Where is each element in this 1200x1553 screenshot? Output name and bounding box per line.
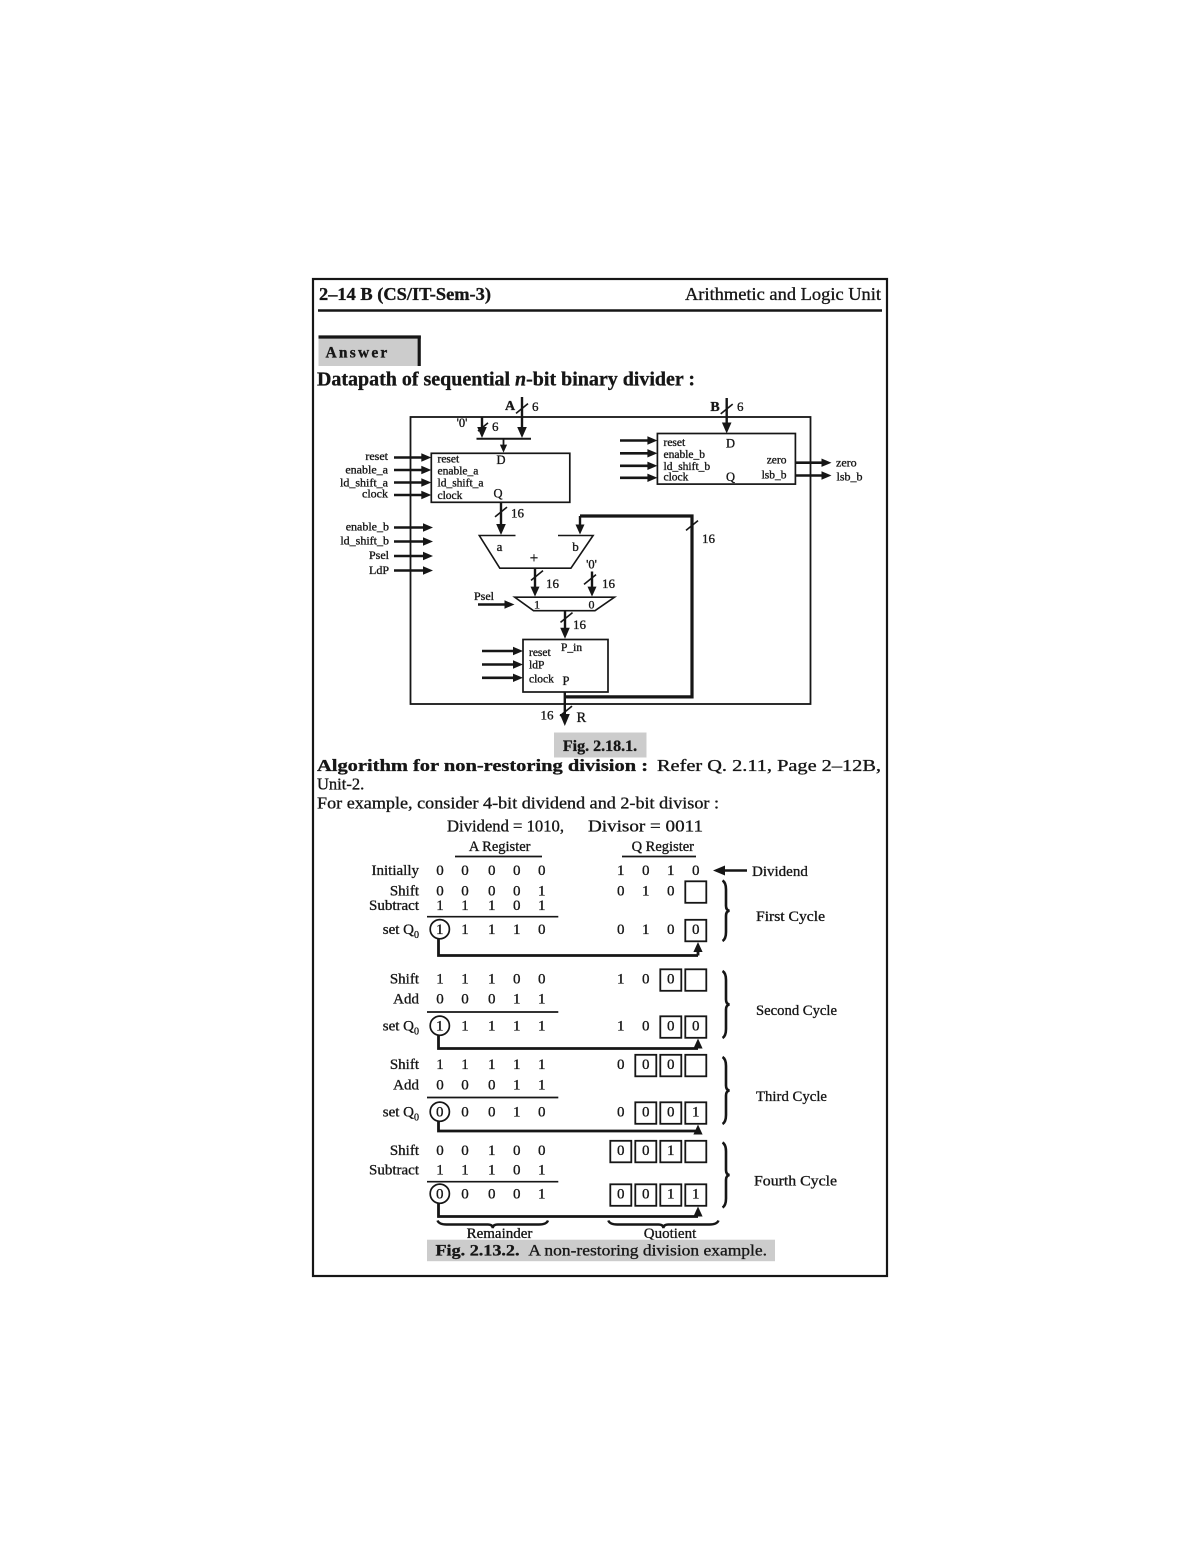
svg-text:0: 0 [692, 922, 700, 938]
svg-text:Shift: Shift [390, 1057, 420, 1073]
svg-text:1: 1 [488, 898, 496, 914]
bits Shift c4 [436, 1143, 545, 1159]
circled carry c3 [430, 1102, 449, 1121]
cycle brace 2 [723, 971, 730, 1038]
svg-text:0: 0 [436, 992, 444, 1008]
svg-text:1: 1 [461, 898, 469, 914]
svg-text:Quotient: Quotient [644, 1226, 697, 1242]
svg-text:Q Register: Q Register [632, 839, 695, 855]
svg-text:Algorithm for non-restoring di: Algorithm for non-restoring division : [317, 756, 648, 775]
svg-text:0: 0 [692, 863, 700, 879]
register B pin Q [726, 470, 735, 484]
wire Psel to mux [478, 600, 515, 608]
dividend arrow [713, 866, 747, 876]
svg-text:Unit-2.: Unit-2. [317, 775, 364, 794]
svg-text:Add: Add [393, 1078, 419, 1094]
paragraph line 3 [317, 794, 719, 813]
svg-text:reset: reset [529, 647, 552, 659]
svg-text:reset: reset [438, 454, 461, 466]
circled carry c2 [430, 1016, 449, 1035]
node ld_shift_a [340, 476, 389, 490]
svg-text:0: 0 [488, 1187, 496, 1203]
header right title [685, 284, 881, 304]
Q box setQ0 c1 [685, 920, 706, 942]
svg-text:set Q0: set Q0 [383, 922, 419, 941]
svg-text:Refer Q. 2.11, Page 2–12B,: Refer Q. 2.11, Page 2–12B, [657, 756, 881, 775]
svg-text:Subtract: Subtract [369, 1163, 420, 1179]
bus slash mux0 [584, 575, 596, 585]
svg-text:1: 1 [692, 1105, 700, 1121]
svg-text:clock: clock [529, 674, 554, 686]
svg-text:0: 0 [667, 884, 675, 900]
svg-text:16: 16 [511, 506, 525, 521]
svg-text:LdP: LdP [369, 563, 389, 577]
svg-text:1: 1 [538, 1019, 546, 1035]
bus width 6 (A) [532, 399, 539, 414]
bits Subtract c1 [436, 898, 545, 914]
row label Subtract c4 [369, 1163, 420, 1179]
svg-text:D: D [726, 437, 735, 451]
svg-text:'0': '0' [457, 416, 468, 430]
adder U1 body [479, 536, 593, 569]
answer box top border [319, 335, 421, 338]
svg-text:1: 1 [513, 1078, 521, 1094]
node Psel (mux select) [474, 589, 495, 603]
figure 2.13.2 caption [436, 1243, 768, 1260]
Q box shift c2 [660, 969, 681, 991]
svg-text:0: 0 [617, 922, 625, 938]
svg-text:+: + [530, 551, 538, 567]
wire P to R [560, 692, 570, 726]
answer box right border [418, 336, 421, 367]
svg-text:1: 1 [488, 1019, 496, 1035]
register A pin D [497, 453, 506, 467]
node '0' high bits [457, 416, 468, 430]
node enable_b [346, 520, 389, 534]
label First Cycle [756, 909, 825, 925]
svg-text:Datapath of sequential n-bit b: Datapath of sequential n-bit binary divi… [317, 369, 695, 391]
svg-text:A Register: A Register [469, 839, 531, 855]
svg-text:1: 1 [488, 972, 496, 988]
svg-text:P: P [563, 674, 570, 688]
svg-text:clock: clock [664, 472, 689, 484]
paragraph line 1 regular [657, 756, 881, 775]
svg-text:1: 1 [513, 922, 521, 938]
svg-text:0: 0 [642, 1105, 650, 1121]
svg-text:0: 0 [642, 1143, 650, 1159]
svg-text:b: b [572, 539, 579, 554]
svg-text:Answer: Answer [326, 345, 390, 362]
Q Register underline [622, 856, 696, 858]
bus width 6 (B) [737, 399, 744, 414]
bus width 16 (feedback) [702, 531, 716, 546]
bits Shift c1 [436, 884, 674, 900]
svg-text:For example, consider 4-bit di: For example, consider 4-bit dividend and… [317, 794, 719, 813]
adder plus label [530, 551, 538, 567]
wire ld_shift_a to reg A [394, 478, 431, 486]
sum line c4 [427, 1181, 558, 1183]
bus width 16 (adder out) [546, 576, 560, 591]
svg-text:Divisor = 0011: Divisor = 0011 [588, 817, 703, 836]
svg-text:clock: clock [362, 487, 388, 501]
bus width 16 (mux out) [573, 617, 587, 632]
svg-text:enable_a: enable_a [345, 463, 388, 477]
dividend value [447, 817, 564, 836]
circled carry c4 [430, 1184, 449, 1203]
svg-text:Arithmetic and Logic Unit: Arithmetic and Logic Unit [685, 284, 881, 304]
bits Shift c2 [436, 972, 649, 988]
Q box setQ0 c2 a [660, 1016, 681, 1038]
svg-text:1: 1 [461, 972, 469, 988]
svg-text:1: 1 [538, 1078, 546, 1094]
bus slash feedback [686, 521, 698, 531]
svg-text:0: 0 [538, 972, 546, 988]
wire clock to reg A [394, 491, 431, 499]
answer label [326, 345, 390, 362]
register B pin enable_b [664, 449, 706, 461]
svg-text:Fig. 2.18.1.: Fig. 2.18.1. [563, 738, 637, 755]
bus width 16 (R) [541, 708, 555, 723]
register B pin reset [664, 437, 687, 449]
svg-text:16: 16 [541, 708, 555, 723]
svg-text:0: 0 [461, 992, 469, 1008]
svg-text:6: 6 [492, 419, 499, 434]
svg-text:set Q0: set Q0 [383, 1019, 419, 1038]
svg-text:16: 16 [702, 531, 716, 546]
svg-text:First Cycle: First Cycle [756, 909, 825, 925]
svg-text:Shift: Shift [390, 972, 420, 988]
row label Add c3 [393, 1078, 419, 1094]
register P pin reset [529, 647, 552, 659]
wire Pctrl ldP [482, 660, 523, 668]
svg-text:0: 0 [692, 1019, 700, 1035]
svg-text:zero: zero [767, 455, 787, 467]
Q empty box c3 [685, 1055, 706, 1077]
svg-text:lsb_b: lsb_b [837, 470, 863, 484]
svg-text:1: 1 [642, 922, 650, 938]
Q empty box c4 [685, 1141, 706, 1163]
wire '0' to join bar [477, 417, 487, 438]
svg-text:'0': '0' [586, 558, 597, 572]
svg-text:0: 0 [436, 1143, 444, 1159]
svg-text:ldP: ldP [529, 660, 544, 672]
wire ctrl3 to reg B [620, 462, 657, 470]
svg-text:0: 0 [488, 1078, 496, 1094]
register P pin clock [529, 674, 554, 686]
svg-text:0: 0 [642, 972, 650, 988]
svg-text:0: 0 [589, 598, 595, 612]
divisor value [588, 817, 703, 836]
wire ctrl2 to reg B [620, 449, 657, 457]
bus slash mux out [561, 613, 573, 623]
remainder brace [438, 1221, 549, 1229]
Q empty box c1 [685, 881, 706, 903]
svg-text:1: 1 [461, 922, 469, 938]
svg-text:1: 1 [642, 884, 650, 900]
wrap wire c3 [439, 1121, 703, 1135]
svg-text:Second Cycle: Second Cycle [756, 1003, 837, 1019]
svg-text:1: 1 [538, 1187, 546, 1203]
svg-text:0: 0 [461, 863, 469, 879]
svg-text:0: 0 [513, 972, 521, 988]
svg-text:1: 1 [461, 1057, 469, 1073]
svg-text:0: 0 [436, 1105, 444, 1121]
node ld_shift_b [340, 534, 389, 548]
svg-text:Add: Add [393, 992, 419, 1008]
svg-text:1: 1 [513, 1019, 521, 1035]
bus slash B [721, 404, 733, 414]
register B box [657, 434, 795, 485]
svg-text:0: 0 [642, 1019, 650, 1035]
svg-text:1: 1 [513, 992, 521, 1008]
svg-text:0: 0 [538, 922, 546, 938]
svg-text:1: 1 [461, 1163, 469, 1179]
svg-text:0: 0 [461, 1187, 469, 1203]
datapath enclosure [411, 417, 811, 704]
svg-text:6: 6 [737, 399, 744, 414]
svg-text:1: 1 [488, 922, 496, 938]
svg-text:0: 0 [642, 1187, 650, 1203]
svg-text:1: 1 [436, 922, 444, 938]
row label Shift c1 [390, 884, 420, 900]
header rule [318, 309, 882, 312]
svg-text:1: 1 [488, 1057, 496, 1073]
svg-text:Fourth Cycle: Fourth Cycle [754, 1174, 837, 1190]
section heading [317, 369, 695, 391]
svg-text:zero: zero [836, 456, 857, 470]
bus slash adder out [531, 571, 543, 581]
Q box shift c3 a [635, 1055, 656, 1077]
node enable_a [345, 463, 388, 477]
node lsb_b [837, 470, 863, 484]
svg-text:B: B [710, 400, 719, 415]
bits final c4 [461, 1187, 545, 1203]
sum line c1 [427, 916, 558, 918]
bus slash Qa [495, 507, 507, 517]
sum line c2 [427, 1011, 558, 1013]
register A pin ld_shift_a [438, 478, 484, 490]
svg-text:0: 0 [488, 1105, 496, 1121]
quotient brace [608, 1221, 718, 1229]
node LdP [369, 563, 389, 577]
Q Register header [632, 839, 695, 855]
svg-text:Dividend = 1010,: Dividend = 1010, [447, 817, 564, 836]
register B pin lsb_b [762, 470, 787, 482]
label Second Cycle [756, 1003, 837, 1019]
svg-text:lsb_b: lsb_b [762, 470, 787, 482]
svg-text:1: 1 [667, 1187, 675, 1203]
register P pin P [563, 674, 570, 688]
wrap wire c1 [439, 939, 703, 956]
Q box setQ0 c3 c [685, 1102, 706, 1124]
Q box shift c4 b [635, 1141, 656, 1163]
adder input a label [497, 539, 503, 554]
svg-text:R: R [577, 710, 587, 726]
wire Pctrl clock [482, 674, 523, 682]
svg-text:1: 1 [513, 1057, 521, 1073]
svg-text:1: 1 [436, 898, 444, 914]
bits setQ0 c3 [461, 1105, 624, 1121]
wire '0' to mux [588, 572, 597, 597]
Q empty box c2 [685, 969, 706, 991]
Q box shift c3 b [660, 1055, 681, 1077]
bus slash A [516, 404, 528, 414]
label Fourth Cycle [754, 1174, 837, 1190]
figure 2.18.1 caption background [554, 733, 647, 758]
bus width 6 ('0') [492, 419, 499, 434]
wire ctrl4 to reg B [620, 474, 657, 482]
svg-text:0: 0 [461, 1105, 469, 1121]
bits setQ0 c1 [461, 922, 674, 938]
svg-text:0: 0 [513, 1187, 521, 1203]
bits Initially [436, 863, 699, 879]
svg-text:P_in: P_in [561, 642, 582, 654]
wire join to D [500, 439, 507, 453]
svg-text:1: 1 [692, 1187, 700, 1203]
svg-text:0: 0 [642, 863, 650, 879]
svg-text:0: 0 [617, 1057, 625, 1073]
wire B to reg B [722, 398, 732, 434]
register B pin clock [664, 472, 689, 484]
page outer border [313, 279, 887, 1276]
svg-text:1: 1 [617, 863, 625, 879]
svg-text:Third Cycle: Third Cycle [756, 1089, 827, 1105]
svg-text:enable_b: enable_b [664, 449, 706, 461]
wire lsb_b output [796, 471, 832, 479]
svg-text:6: 6 [532, 399, 539, 414]
paragraph line 2 [317, 775, 364, 794]
svg-text:16: 16 [546, 576, 560, 591]
bits Subtract c4 [436, 1163, 545, 1179]
svg-text:0: 0 [667, 1019, 675, 1035]
quotient label [644, 1226, 697, 1242]
bits Shift c3 [436, 1057, 624, 1073]
svg-text:0: 0 [513, 1163, 521, 1179]
register P pin P_in [561, 642, 582, 654]
wire reset to reg A [394, 453, 431, 461]
register A box [431, 453, 570, 502]
register A pin Q [494, 487, 503, 501]
row label Shift c4 [390, 1143, 420, 1159]
svg-text:A: A [505, 399, 516, 414]
Q box shift c4 c [660, 1141, 681, 1163]
node A [505, 399, 516, 414]
wire ld_shift_b stub [394, 537, 433, 545]
node Psel [369, 548, 390, 562]
svg-text:0: 0 [642, 1057, 650, 1073]
row label Subtract c1 [369, 898, 420, 914]
wire ctrl1 to reg B [620, 436, 657, 444]
svg-text:2–14 B (CS/IT-Sem-3): 2–14 B (CS/IT-Sem-3) [319, 284, 491, 304]
register P box [523, 640, 608, 693]
svg-text:reset: reset [365, 449, 388, 463]
wire enable_a to reg A [394, 466, 431, 474]
svg-text:enable_b: enable_b [346, 520, 389, 534]
wire feedback P to b [565, 516, 692, 697]
wire enable_b stub [394, 523, 433, 531]
wrap wire c2 [439, 1035, 703, 1049]
svg-text:0: 0 [436, 863, 444, 879]
Q box final c4 c [660, 1184, 681, 1206]
svg-text:Q: Q [726, 470, 735, 484]
register A pin reset [438, 454, 461, 466]
svg-text:0: 0 [436, 1078, 444, 1094]
node R [577, 710, 587, 726]
figure 2.13.2 caption background [427, 1240, 775, 1262]
svg-text:1: 1 [436, 972, 444, 988]
mux input 1 label [534, 598, 540, 612]
register B pin ld_shift_b [664, 461, 711, 473]
svg-text:1: 1 [513, 1105, 521, 1121]
svg-text:1: 1 [538, 898, 546, 914]
svg-text:0: 0 [513, 863, 521, 879]
bus slash R [560, 706, 572, 716]
register B pin D [726, 437, 735, 451]
wire A to join bar [517, 397, 527, 438]
answer box fill [319, 336, 418, 367]
register P pin ldP [529, 660, 544, 672]
dividend label [752, 864, 808, 880]
row label setQ0 c1 [383, 922, 419, 941]
Q box setQ0 c2 b [685, 1016, 706, 1038]
wire Pctrl reset [482, 647, 523, 655]
row label Shift c2 [390, 972, 420, 988]
bits Add c2 [436, 992, 545, 1008]
row label Initially [372, 863, 420, 879]
svg-text:1: 1 [436, 1057, 444, 1073]
svg-text:1: 1 [534, 598, 540, 612]
join bar node [477, 438, 532, 440]
svg-text:0: 0 [538, 1105, 546, 1121]
svg-text:Shift: Shift [390, 1143, 420, 1159]
svg-text:16: 16 [602, 576, 616, 591]
svg-text:1: 1 [538, 1163, 546, 1179]
Q box final c4 a [610, 1184, 631, 1206]
mux U2 body [515, 597, 615, 611]
svg-text:0: 0 [513, 1143, 521, 1159]
row label Shift c3 [390, 1057, 420, 1073]
bus slash '0' [478, 423, 488, 431]
cycle brace 1 [723, 881, 730, 942]
svg-text:0: 0 [617, 1143, 625, 1159]
node '0' (mux) [586, 558, 597, 572]
A Register underline [455, 856, 542, 858]
svg-text:Initially: Initially [372, 863, 420, 879]
row label setQ0 c2 [383, 1019, 419, 1038]
node zero [836, 456, 857, 470]
svg-text:set Q0: set Q0 [383, 1105, 419, 1124]
Q box setQ0 c3 a [635, 1102, 656, 1124]
svg-text:1: 1 [538, 1057, 546, 1073]
wire regA Q to adder a [496, 502, 506, 535]
cycle brace 3 [723, 1057, 730, 1124]
svg-text:0: 0 [513, 898, 521, 914]
header left title [319, 284, 491, 304]
bus width 16 (mux 0) [602, 576, 616, 591]
wrap wire c4 [439, 1203, 703, 1217]
svg-text:1: 1 [436, 1019, 444, 1035]
svg-text:Dividend: Dividend [752, 864, 808, 880]
svg-text:reset: reset [664, 437, 687, 449]
A Register header [469, 839, 531, 855]
register A pin enable_a [438, 465, 479, 477]
svg-text:enable_a: enable_a [438, 465, 479, 477]
svg-text:1: 1 [488, 1163, 496, 1179]
svg-text:0: 0 [667, 972, 675, 988]
node clock (A) [362, 487, 388, 501]
svg-text:16: 16 [573, 617, 587, 632]
sum line c3 [427, 1097, 558, 1099]
